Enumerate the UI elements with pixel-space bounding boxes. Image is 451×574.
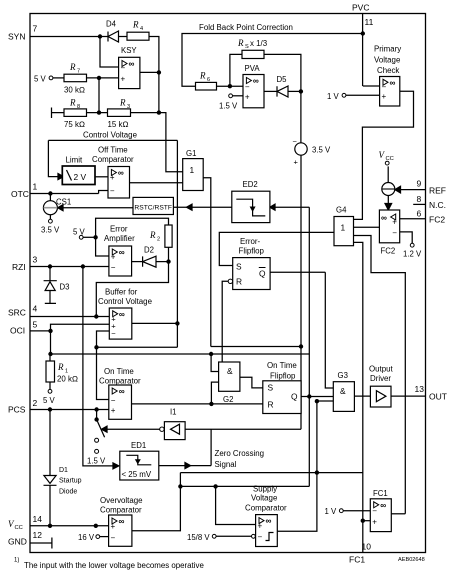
reference current source — [382, 183, 395, 196]
switch contacts — [87, 438, 106, 465]
wire FC2 pin6 to FC2 comparator plus — [400, 218, 426, 220]
wire GND pin12 with end bar — [30, 538, 52, 549]
on time comparator — [99, 367, 141, 419]
svg-text:ED2: ED2 — [243, 180, 258, 189]
gate G1 — [183, 149, 204, 191]
wire KSY output — [140, 71, 159, 73]
svg-text:6: 6 — [417, 209, 422, 219]
svg-text:Startup: Startup — [59, 478, 82, 485]
off time comparator — [92, 146, 134, 199]
svg-text:1: 1 — [33, 182, 38, 192]
svg-text:D1: D1 — [59, 467, 68, 474]
svg-text:I1: I1 — [170, 408, 177, 417]
svg-text:3: 3 — [127, 104, 130, 110]
svg-text:1): 1) — [14, 558, 19, 564]
svg-text:Control Voltage: Control Voltage — [98, 297, 153, 306]
wire ED2 output to RSTC box with arrow — [173, 206, 231, 208]
junction at 158.9,72.4 — [157, 70, 161, 74]
svg-text:11: 11 — [365, 17, 374, 27]
terminal 1V at PVC — [327, 92, 346, 101]
gate G4 — [334, 206, 354, 246]
wire KSY inverting input to SYN node — [100, 37, 119, 68]
svg-text:OCI: OCI — [10, 326, 25, 336]
svg-text:PCS: PCS — [8, 405, 26, 415]
wire EA output to D2 — [132, 261, 143, 263]
svg-text:Signal: Signal — [215, 460, 237, 469]
svg-text:∞: ∞ — [381, 212, 387, 222]
svg-text:15 kΩ: 15 kΩ — [108, 120, 129, 129]
svg-text:G3: G3 — [338, 371, 348, 380]
svg-text:−: − — [111, 263, 116, 272]
junction at 99,77.9 — [97, 76, 101, 80]
svg-text:2 V: 2 V — [74, 172, 87, 182]
svg-text:CC: CC — [15, 525, 23, 531]
wire off-time comparator output to G1 input2 — [130, 182, 183, 184]
svg-text:On Time: On Time — [267, 361, 297, 370]
svg-text:2: 2 — [157, 237, 160, 243]
wire G2 input1 riser from OCI line — [211, 354, 219, 372]
wire 5V to EA plus input — [96, 237, 109, 256]
wire 1.2V up to FC2 minus — [400, 232, 413, 243]
3.5V current source — [293, 137, 332, 167]
svg-text:RSTC/RSTF: RSTC/RSTF — [134, 205, 172, 212]
svg-text:−: − — [110, 187, 115, 196]
svg-text:∞: ∞ — [119, 247, 125, 257]
svg-text:14: 14 — [33, 514, 43, 524]
resistor R7 — [64, 62, 87, 95]
comparator FC1 — [370, 489, 391, 532]
svg-text:Overvoltage: Overvoltage — [100, 496, 143, 505]
wire 5V to error amplifier — [83, 236, 96, 238]
wire REF pin9 with arrow into reference source — [400, 189, 426, 191]
svg-text:+: + — [121, 75, 126, 84]
wire EA output node down and left to SRC line — [96, 262, 168, 317]
error flipflop — [228, 237, 270, 290]
svg-text:∞: ∞ — [390, 77, 396, 87]
svg-text:Off Time: Off Time — [98, 146, 128, 155]
wire Q riser from ED2 down to hysteresis line — [308, 207, 310, 486]
wire PCS down to switch — [96, 410, 98, 420]
overvoltage comparator — [100, 496, 143, 546]
junction at 50,266.5 — [48, 264, 52, 268]
svg-text:R: R — [69, 62, 76, 72]
wire fold back from pin11 node — [182, 34, 363, 87]
wire R5 to PVA minus node — [217, 85, 244, 87]
wire control voltage to Limit block with arrow — [48, 140, 58, 176]
svg-text:D4: D4 — [106, 20, 117, 29]
svg-text:5 V: 5 V — [43, 396, 56, 405]
wire D2 to node — [156, 261, 169, 263]
output driver — [369, 365, 393, 408]
svg-text:Fold Back Point Correction: Fold Back Point Correction — [199, 23, 293, 32]
comparator FC2 mirrored — [379, 210, 399, 256]
terminal 15/8V — [187, 533, 255, 542]
edge detector ED1 — [120, 441, 159, 480]
svg-text:x 1/3: x 1/3 — [250, 39, 268, 48]
wire OCI node down — [50, 331, 52, 354]
junction at 211.4,403.9 — [209, 402, 213, 406]
svg-text:+: + — [111, 253, 116, 262]
wire G4 stub3 to pin10 bus — [354, 242, 363, 552]
svg-text:3: 3 — [33, 255, 38, 265]
wire OCI pin5 — [30, 330, 51, 332]
svg-text:+: + — [258, 521, 263, 530]
wire 15/8V to supply comparator — [216, 535, 251, 537]
resistor R2 — [149, 225, 172, 247]
wire hysteresis line from Q riser to supply plus — [180, 485, 309, 487]
svg-text:OUT: OUT — [429, 392, 447, 402]
svg-text:1.5 V: 1.5 V — [219, 102, 238, 111]
inverter I1 — [160, 408, 185, 440]
wire R1 top — [49, 354, 51, 361]
terminal 16V — [78, 533, 100, 542]
terminal 5V under R1 — [43, 389, 56, 405]
svg-text:N.C.: N.C. — [429, 200, 446, 210]
svg-text:Zero Crossing: Zero Crossing — [215, 449, 265, 458]
resistor R8 — [64, 98, 87, 130]
svg-text:−: − — [111, 329, 116, 338]
wire FC1 plus from pin10 bus — [363, 520, 371, 522]
junction at 300.9,91.4 — [299, 89, 303, 93]
svg-text:+: + — [111, 406, 116, 415]
junction at 316.9,401.2 — [315, 399, 319, 403]
wire R7 to KSY plus input — [87, 77, 119, 79]
svg-text:G1: G1 — [186, 149, 196, 158]
wire supply comparator plus feed — [216, 486, 256, 524]
svg-text:Error: Error — [110, 225, 128, 234]
wire D5 to node — [288, 90, 301, 92]
wire G1 output link to 3.5V bus — [211, 346, 301, 348]
svg-text:Flipflop: Flipflop — [270, 372, 296, 381]
wire Qbar riser down to G3 input1 — [325, 272, 333, 388]
svg-text:Voltage: Voltage — [374, 56, 401, 65]
svg-text:1 V: 1 V — [327, 92, 340, 101]
zero crossing signal label — [215, 449, 265, 469]
svg-text:&: & — [340, 386, 346, 396]
svg-text:Voltage: Voltage — [251, 494, 278, 503]
svg-text:Q: Q — [291, 392, 298, 402]
resistor R5 — [196, 71, 217, 91]
wire on-time comparator output to on-time FF R — [132, 403, 263, 405]
wire G3 output to driver — [354, 395, 370, 397]
wire G1 output down — [203, 178, 211, 347]
wire 5V to R7 — [53, 77, 64, 79]
wire G2 output to on-time FF S — [240, 377, 263, 388]
terminal 3.5V under CS1 — [41, 219, 60, 234]
svg-text:7: 7 — [77, 69, 80, 75]
wire control voltage to G1 input1 — [166, 140, 183, 171]
svg-text:−: − — [111, 534, 116, 543]
wire supply comparator output riser to G3 — [277, 401, 333, 531]
wire RSTC line into CS1 with arrow — [63, 207, 133, 209]
svg-text:6: 6 — [207, 77, 210, 83]
junction at 301,346.5 — [299, 344, 303, 348]
svg-text:16 V: 16 V — [78, 533, 95, 542]
wire 1V to FC1 minus — [343, 510, 370, 512]
svg-text:Comparator: Comparator — [92, 155, 134, 164]
FOOTER — [14, 557, 425, 570]
wire 1V to PVC plus — [346, 94, 380, 96]
svg-text:Error-: Error- — [240, 237, 261, 246]
switch lever — [97, 420, 105, 438]
svg-text:1 V: 1 V — [325, 507, 338, 516]
wire FC1 output riser from G4 stub — [354, 236, 406, 514]
svg-text:FC1: FC1 — [349, 555, 365, 565]
wire zero crossing riser — [210, 429, 212, 465]
terminal 1.5V at PVA — [219, 94, 238, 111]
svg-text:Q: Q — [259, 269, 266, 279]
svg-text:9: 9 — [417, 179, 422, 189]
junction at 50,409.5 — [48, 407, 52, 411]
current source CS1 — [43, 198, 71, 215]
svg-text:4: 4 — [140, 26, 143, 32]
svg-text:PVC: PVC — [352, 3, 369, 13]
svg-text:+: + — [111, 522, 116, 531]
wire PVA output to D5 — [264, 90, 277, 92]
wire reference source down arrow into FC2 — [387, 196, 389, 207]
diode D2 — [143, 246, 156, 268]
svg-text:Limit: Limit — [66, 156, 83, 165]
edge detector ED2 — [232, 180, 270, 223]
junction at 50.5,330.9 — [48, 329, 52, 333]
svg-text:−: − — [245, 83, 250, 92]
svg-text:Diode: Diode — [59, 489, 77, 496]
gate G3 — [333, 371, 354, 411]
svg-text:∞: ∞ — [119, 309, 125, 319]
svg-text:G2: G2 — [223, 395, 233, 404]
wire PCS down to D1 — [49, 410, 51, 476]
svg-text:FC1: FC1 — [373, 489, 388, 498]
svg-text:FC2: FC2 — [381, 247, 396, 256]
junction at 309.3,396.5 — [307, 394, 311, 398]
svg-text:5: 5 — [33, 320, 38, 330]
wire ED1 output zero crossing with arrow — [159, 465, 211, 467]
svg-text:OTC: OTC — [11, 189, 29, 199]
svg-text:75 kΩ: 75 kΩ — [64, 120, 85, 129]
svg-text:Amplifier: Amplifier — [104, 234, 135, 243]
svg-text:REF: REF — [429, 186, 446, 196]
resistor R1 — [46, 361, 78, 384]
terminal 5V at error amplifier — [73, 228, 86, 240]
svg-text:AEB02648: AEB02648 — [398, 557, 425, 563]
svg-text:∞: ∞ — [129, 59, 135, 69]
svg-text:+: + — [245, 92, 250, 101]
junction at 316.9,472.6 — [315, 470, 319, 474]
svg-text:15/8 V: 15/8 V — [187, 533, 210, 542]
svg-text:CS1: CS1 — [56, 198, 71, 207]
junction at 168.5,261.6 — [166, 259, 170, 263]
resistor R3 — [108, 98, 131, 130]
svg-text:+: + — [294, 158, 299, 167]
wire R7 node down to R8-R3 row — [98, 78, 100, 113]
zener diode D3 — [44, 267, 70, 304]
primary voltage check comparator — [374, 45, 401, 107]
wire off-time comparator minus to OTC pin line — [99, 191, 108, 194]
buffer for control voltage — [98, 288, 153, 340]
svg-text:R: R — [57, 362, 64, 372]
wire VCC pin14 — [30, 525, 109, 527]
svg-text:Primary: Primary — [374, 45, 401, 54]
wire overvoltage comparator output riser — [132, 473, 181, 531]
svg-text:+: + — [382, 92, 387, 101]
svg-text:1: 1 — [190, 165, 195, 175]
junction at 99,112.6 — [97, 110, 101, 114]
wire 3.5V ramp bus from D5 node down to I1 input line — [300, 91, 302, 429]
svg-text:1.5 V: 1.5 V — [87, 457, 106, 466]
svg-text:5 V: 5 V — [73, 228, 86, 237]
wire PCS pin2 — [30, 409, 109, 411]
wire R1 bottom to 5V terminal — [49, 382, 51, 389]
wire error FF Qbar output — [270, 271, 325, 273]
svg-text:∞: ∞ — [119, 386, 125, 396]
svg-text:FC2: FC2 — [429, 215, 445, 225]
svg-text:SYN: SYN — [8, 32, 25, 42]
svg-text:The input with the lower volta: The input with the lower voltage becomes… — [24, 561, 204, 570]
wire SRC pin4 — [30, 316, 109, 318]
wire on-time FF Q output to G3 input2 — [301, 396, 333, 398]
wire OCI jog up to buffer second plus — [51, 324, 110, 331]
svg-text:2: 2 — [33, 398, 38, 408]
error amplifier — [104, 225, 135, 277]
svg-text:∞: ∞ — [253, 76, 259, 86]
svg-text:20 kΩ: 20 kΩ — [57, 375, 78, 384]
svg-text:S: S — [236, 262, 242, 272]
wire 5V feed up over R2 — [96, 218, 169, 237]
svg-text:G4: G4 — [336, 206, 347, 215]
svg-text:S: S — [268, 383, 274, 393]
svg-text:30 kΩ: 30 kΩ — [64, 86, 85, 95]
svg-text:∞: ∞ — [266, 516, 272, 526]
svg-text:R: R — [132, 20, 139, 30]
junction at 158.9,112.6 — [157, 110, 161, 114]
diode D1 startup — [44, 467, 82, 496]
junction at 215.6,486.4 — [213, 484, 217, 488]
junction at 82.9,266.5 — [81, 264, 85, 268]
svg-text:Driver: Driver — [370, 374, 391, 383]
svg-text:−: − — [293, 137, 298, 146]
wire control voltage node down — [159, 113, 166, 141]
diode D5 — [277, 75, 289, 97]
wire NC pin8 stub — [413, 203, 425, 205]
wire ED2 input from Q riser — [275, 206, 309, 208]
junction at 180.4,486.4 — [178, 484, 182, 488]
svg-text:SRC: SRC — [8, 308, 26, 318]
svg-text:7: 7 — [33, 24, 38, 34]
junction at 50.4,193.5 — [48, 191, 52, 195]
terminal 1V at FC1 — [325, 507, 344, 516]
wire Rs feedback to D5 node — [264, 54, 301, 91]
wire buffer output wrap to left — [97, 346, 178, 348]
wire to buffer inverting input — [97, 331, 110, 347]
svg-text:R: R — [119, 98, 126, 108]
svg-text:R: R — [199, 71, 206, 81]
wire RZI pin3 — [30, 266, 109, 268]
svg-text:−: − — [258, 533, 263, 542]
svg-text:R: R — [69, 98, 76, 108]
junction at 96.3,316.5 — [94, 314, 98, 318]
on time flipflop — [263, 361, 301, 414]
wire PVA minus node up through Rs feedback — [230, 54, 242, 86]
svg-text:Comparator: Comparator — [245, 504, 287, 513]
svg-text:R: R — [237, 38, 244, 48]
svg-text:8: 8 — [417, 194, 422, 204]
svg-text:−: − — [382, 83, 387, 92]
svg-text:−: − — [372, 507, 377, 516]
wire I1 input line — [185, 428, 301, 430]
junction at 96.5,347.3 — [94, 345, 98, 349]
svg-text:ED1: ED1 — [131, 441, 146, 450]
svg-text:5 V: 5 V — [34, 75, 47, 84]
svg-text:RZI: RZI — [12, 262, 26, 272]
terminal 5V at R7 — [34, 75, 53, 84]
junction at 211.1,354 — [209, 352, 213, 356]
junction at 96.6,409.5 — [94, 407, 98, 411]
svg-text:−: − — [121, 64, 126, 73]
wire FC2 output to G4 — [354, 226, 380, 228]
svg-text:3.5 V: 3.5 V — [41, 226, 60, 235]
svg-text:8: 8 — [77, 104, 80, 110]
resistor RS x 1/3 — [237, 38, 268, 59]
wire buffer output — [132, 322, 178, 324]
svg-text:R: R — [268, 400, 274, 410]
wire OV output line right to pin10 bus — [180, 472, 362, 474]
wire control voltage horizontal — [48, 139, 177, 141]
wire down to on-time comparator inverting input — [97, 347, 109, 399]
svg-text:+: + — [110, 173, 115, 182]
junction at 229.9,86.2 — [228, 84, 232, 88]
junction at 95.6,237.3 — [93, 235, 97, 239]
svg-text:Buffer for: Buffer for — [105, 288, 138, 297]
junction at 96.6,419.5 — [94, 417, 98, 421]
svg-text:∞: ∞ — [380, 500, 386, 510]
svg-text:1: 1 — [341, 223, 346, 233]
limit block — [62, 156, 95, 185]
wire 1.5V to PVA plus — [233, 95, 244, 97]
svg-text:∞: ∞ — [119, 516, 125, 526]
svg-text:On Time: On Time — [104, 367, 134, 376]
svg-text:Comparator: Comparator — [99, 377, 141, 386]
svg-text:−: − — [111, 396, 116, 405]
junction at 100,36.5 — [98, 34, 102, 38]
wire SYN pin7 — [30, 36, 108, 38]
wire R4 to node, down to R3 node — [149, 37, 159, 113]
wire D1 to VCC line — [49, 485, 51, 526]
wire driver output to OUT pin13 — [391, 395, 426, 397]
wire RZI down to ED1 input with arrow — [83, 267, 113, 466]
diode D4 — [106, 20, 119, 43]
svg-text:< 25 mV: < 25 mV — [122, 470, 152, 479]
svg-text:PVA: PVA — [245, 64, 261, 73]
comparator PVA — [243, 64, 264, 108]
svg-text:D2: D2 — [144, 246, 154, 255]
wire I1 output to switch with arrow — [107, 428, 160, 430]
svg-text:4: 4 — [33, 304, 38, 314]
svg-text:R: R — [236, 277, 242, 287]
junction at 50,525.8 — [48, 524, 52, 528]
gate G2 — [219, 362, 240, 404]
svg-text:13: 13 — [415, 384, 425, 394]
svg-text:Control Voltage: Control Voltage — [83, 131, 138, 140]
junction at 50.5,354 — [48, 352, 52, 356]
junction at 95.8,525.8 — [94, 524, 98, 528]
svg-text:KSY: KSY — [121, 46, 137, 55]
resistor R4 — [127, 20, 149, 41]
terminal 1.2V — [403, 243, 422, 258]
wire CS1 stub from OTC node — [49, 194, 51, 220]
wire D4 to R4 — [119, 36, 128, 38]
svg-text:−: − — [392, 229, 397, 238]
svg-text:12: 12 — [33, 530, 43, 540]
